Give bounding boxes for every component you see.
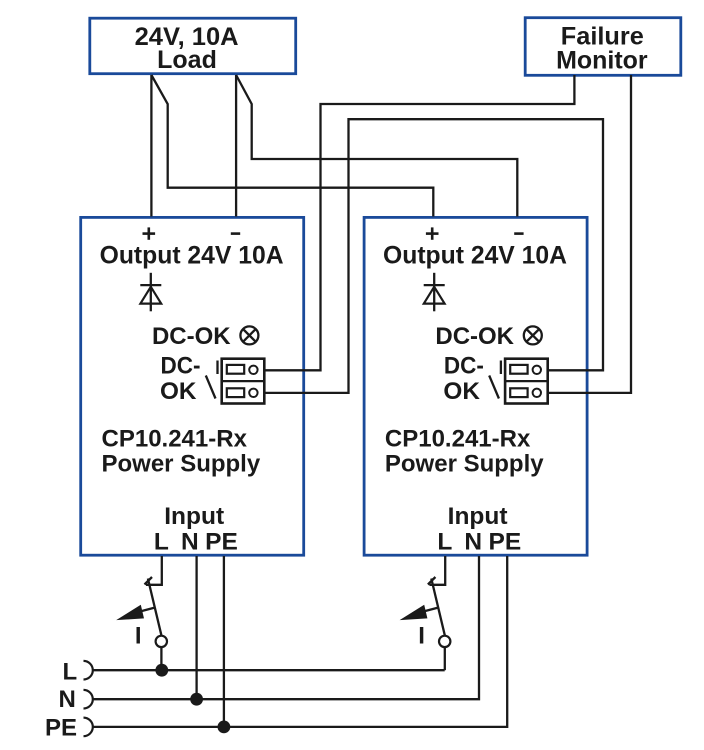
svg-text:Input: Input xyxy=(448,503,508,530)
svg-text:N: N xyxy=(181,528,199,555)
svg-text:PE: PE xyxy=(489,528,522,555)
svg-text:PE: PE xyxy=(45,715,77,742)
svg-text:Output 24V 10A: Output 24V 10A xyxy=(383,243,567,270)
svg-text:CP10.241-Rx: CP10.241-Rx xyxy=(102,426,248,453)
svg-text:N: N xyxy=(58,686,75,713)
svg-text:Monitor: Monitor xyxy=(556,46,648,74)
svg-text:I: I xyxy=(135,623,142,650)
svg-text:PE: PE xyxy=(205,528,238,555)
svg-text:Load: Load xyxy=(157,46,217,74)
svg-text:Input: Input xyxy=(164,503,224,530)
svg-text:OK: OK xyxy=(160,378,197,405)
svg-text:I: I xyxy=(418,623,425,650)
svg-text:DC-OK: DC-OK xyxy=(152,323,231,350)
svg-text:DC-: DC- xyxy=(444,353,484,380)
svg-text:L: L xyxy=(437,528,452,555)
svg-text:N: N xyxy=(464,528,482,555)
svg-text:DC-: DC- xyxy=(161,353,201,380)
svg-text:DC-OK: DC-OK xyxy=(435,323,514,350)
svg-text:Power Supply: Power Supply xyxy=(385,451,544,478)
svg-text:CP10.241-Rx: CP10.241-Rx xyxy=(385,426,531,453)
svg-text:Output 24V 10A: Output 24V 10A xyxy=(100,243,284,270)
svg-text:OK: OK xyxy=(443,378,480,405)
svg-text:L: L xyxy=(154,528,169,555)
svg-text:Power Supply: Power Supply xyxy=(102,451,261,478)
svg-text:L: L xyxy=(63,659,78,686)
